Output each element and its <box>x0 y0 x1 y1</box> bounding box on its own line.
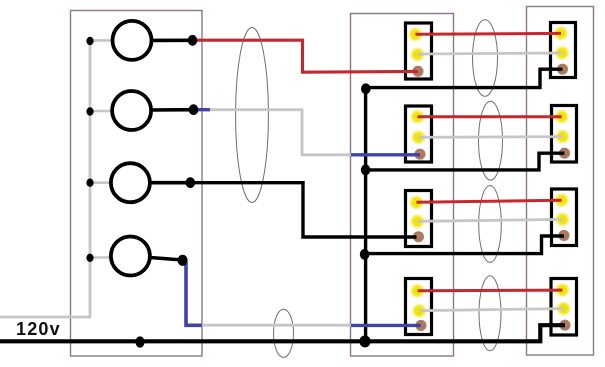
switch S7 right box <box>552 189 577 246</box>
lamp L1 <box>113 21 152 60</box>
terminal S6 traveler2 <box>555 129 570 144</box>
wire: lamp L2 right stub <box>151 108 194 112</box>
terminal S7 traveler2 <box>555 212 570 227</box>
node: L3 right junction <box>186 177 196 188</box>
node: L2 left junction <box>86 107 93 115</box>
wire: lamp L4 blue drop at lamp <box>186 262 202 325</box>
wire: traveler red row3 <box>417 200 562 202</box>
wire: black feed to switch S6 common <box>364 153 565 170</box>
terminal S4 traveler1 <box>410 283 425 298</box>
terminal S3 common <box>413 231 424 242</box>
terminal S1 traveler1 <box>408 27 423 42</box>
node: L4 right junction <box>178 255 188 266</box>
node: trunk junction row3 <box>360 249 370 260</box>
wire: lamp L2 feed blue into switch S2 <box>351 153 420 156</box>
cable ellipse E0 (left-middle run) <box>236 28 269 203</box>
node: L1 right junction <box>188 35 198 46</box>
lamp L3 <box>111 163 150 202</box>
cable ellipse E3 (row3 middle-right run) <box>479 186 502 263</box>
wire: lamp L2 blue stub at lamp <box>194 108 211 111</box>
node: trunk junction at 120v line <box>359 335 370 347</box>
terminal S4 traveler2 <box>412 303 427 318</box>
terminal S3 traveler2 <box>410 214 425 229</box>
terminal S5 traveler2 <box>555 46 570 61</box>
lamp L2 <box>112 91 151 130</box>
wire: lamp L1 left stub <box>90 39 113 42</box>
wire: lamp L4 feed blue into switch S4 <box>351 324 421 327</box>
wire: lamp L2 left stub <box>90 110 112 113</box>
node: L2 right junction <box>189 104 199 115</box>
terminal S3 traveler1 <box>409 195 424 210</box>
node: L4 left junction <box>86 254 93 262</box>
terminal S2 common <box>414 149 425 160</box>
label: 120v source <box>16 319 61 340</box>
wire: traveler gray row2 <box>419 135 563 138</box>
terminal S7 traveler1 <box>554 193 569 208</box>
wire: lamp L3 right stub <box>151 181 190 185</box>
box: middle switch group <box>351 14 454 357</box>
terminal S8 traveler2 <box>556 301 571 316</box>
cable ellipse E5 (bottom run) <box>274 309 294 357</box>
wire: traveler gray row1 <box>418 53 563 54</box>
wire: traveler red row2 <box>418 115 562 118</box>
wire: lamp L2 feed gray run <box>209 110 352 155</box>
wire: lamp L4 feed gray run <box>201 324 352 327</box>
wire: black feed to switch S7 common <box>364 236 565 254</box>
wire: black feed to switch S5 common <box>364 69 563 87</box>
terminal S6 common <box>559 148 570 159</box>
terminal S8 traveler1 <box>555 283 570 298</box>
terminal S7 common <box>558 230 569 241</box>
node: L3 left junction <box>86 179 93 187</box>
wire: traveler gray row4 <box>419 309 563 311</box>
switch S8 right box <box>551 279 577 336</box>
terminal S8 common <box>559 320 570 331</box>
wire: traveler red row1 <box>416 32 562 36</box>
wire: lamp L1 right stub <box>151 38 193 42</box>
wire: trunk vertical black in middle box <box>364 88 367 342</box>
lamp L4 <box>111 237 150 276</box>
terminal S4 common <box>415 320 426 331</box>
switch S5 right box <box>551 23 576 78</box>
terminal S6 traveler1 <box>554 109 569 124</box>
wire: lamp L4 left stub <box>90 256 112 259</box>
switch S2 middle box <box>406 106 432 162</box>
switch S4 middle box <box>406 279 432 335</box>
node: junction on 120v line <box>135 336 144 347</box>
wire: lamp L1 feed red <box>193 40 418 72</box>
terminal S2 traveler1 <box>410 109 425 124</box>
terminal S1 traveler2 <box>410 47 425 62</box>
wire: lamp L4 right stub <box>150 258 183 261</box>
wire: main 120v hot (bottom black) <box>0 325 565 341</box>
wire: traveler red row4 <box>418 289 563 293</box>
switch S6 right box <box>552 106 577 163</box>
terminal S5 common <box>557 64 568 75</box>
cable ellipse E1 (row1 middle-right run) <box>473 20 498 97</box>
switch S3 middle box <box>406 191 432 247</box>
switch S1 middle box <box>406 23 432 79</box>
terminal S1 common <box>412 66 423 77</box>
node: L1 left junction <box>86 37 93 45</box>
wire: lamp L3 feed black <box>190 183 416 237</box>
box: right switch group <box>527 7 594 356</box>
terminal S5 traveler1 <box>554 26 569 41</box>
wire: lamp L3 left stub <box>90 181 112 184</box>
wire: neutral gray bus vertical in lamp box <box>0 41 90 317</box>
cable ellipse E2 (row2 middle-right run) <box>479 101 503 180</box>
terminal S2 traveler2 <box>411 130 426 145</box>
box: lamp fixture group (left) <box>71 11 203 357</box>
wire: traveler gray row3 <box>418 219 563 221</box>
cable ellipse E4 (row4 middle-right run) <box>479 276 501 351</box>
node: trunk junction row2 <box>361 165 371 176</box>
node: trunk junction row1 <box>361 83 371 94</box>
